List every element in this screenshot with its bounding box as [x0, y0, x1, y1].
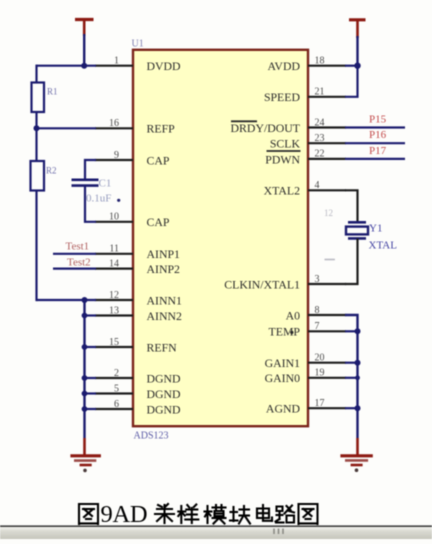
pin 11 (AINP1) — [95, 244, 180, 262]
wire: Test2 stub (pin14) — [53, 268, 96, 270]
svg-text:Test1: Test1 — [66, 240, 90, 252]
svg-text:U1: U1 — [132, 39, 144, 50]
svg-text:A0: A0 — [286, 308, 301, 322]
svg-text:CLKIN/XTAL1: CLKIN/XTAL1 — [224, 277, 300, 291]
svg-text:P17: P17 — [369, 145, 387, 157]
resistor R2 — [31, 161, 57, 191]
wire: pin18 to rail — [345, 65, 358, 67]
faint dash mark — [325, 259, 335, 261]
wire: pin17 to right bus — [345, 407, 358, 409]
wire: pin1 to left rail — [37, 65, 97, 67]
wire: power stem to pin1 net — [83, 34, 85, 66]
wire: pin6 to ground bus — [85, 408, 97, 410]
svg-text:7: 7 — [315, 321, 320, 332]
junction pin6/bus — [82, 406, 88, 412]
svg-text:DVDD: DVDD — [147, 59, 182, 73]
svg-text:P16: P16 — [369, 129, 387, 141]
pin 8 (A0) — [286, 305, 346, 323]
title: 图9AD 采样模块电路图 — [79, 504, 98, 524]
pin 5 (DGND) — [95, 383, 181, 401]
pin 17 (AGND) — [266, 398, 346, 416]
svg-text:PDWN: PDWN — [265, 152, 300, 166]
svg-text:2: 2 — [114, 368, 119, 379]
op-amp/ADC IC U1 body — [133, 50, 308, 426]
wire: left rail above R1 — [35, 65, 37, 84]
junction pin2/bus — [82, 375, 88, 381]
pin 2 (DGND) — [95, 368, 181, 386]
junction AVDD — [354, 62, 360, 68]
svg-text:P15: P15 — [369, 114, 387, 126]
svg-text:21: 21 — [315, 87, 325, 98]
svg-text:19: 19 — [315, 368, 325, 379]
svg-text:11: 11 — [109, 244, 119, 255]
wire: Test1 stub (pin11) — [53, 253, 96, 255]
svg-text:AINN2: AINN2 — [147, 309, 182, 323]
overline DRDY — [231, 120, 257, 122]
wire: P17 net — [345, 158, 405, 160]
junction pin15/bus — [82, 344, 88, 350]
pin 12 (AINN1) — [95, 290, 182, 308]
svg-text:8: 8 — [315, 305, 320, 316]
pin 23 (SCLK) — [270, 133, 346, 151]
svg-text:5: 5 — [114, 383, 119, 394]
svg-text:0.1uF: 0.1uF — [86, 193, 111, 205]
pin 24 (DRDY/DOUT) — [231, 117, 346, 135]
wire: left rail R1 to R2 — [35, 112, 37, 161]
wire: P16 net — [345, 142, 405, 144]
TEMP dot artifact — [290, 331, 293, 334]
junction at REFP/left rail — [34, 125, 40, 131]
svg-text:DGND: DGND — [147, 402, 182, 416]
pin 22 (PDWN) — [265, 149, 346, 167]
scrollbar grip — [274, 529, 283, 535]
wire: pin13 to ground bus — [85, 314, 97, 316]
svg-text:24: 24 — [315, 117, 325, 128]
ground symbol (right, AGND) — [340, 438, 372, 472]
svg-text:DGND: DGND — [147, 387, 182, 401]
capacitor C1 — [72, 178, 121, 205]
pin 6 (DGND) — [95, 399, 181, 417]
svg-text:Test2: Test2 — [67, 256, 91, 268]
svg-text:R1: R1 — [47, 87, 58, 97]
junction pin20 — [355, 360, 361, 366]
wire: crystal bottom to pin3 — [345, 238, 358, 284]
svg-text:REFP: REFP — [147, 122, 176, 136]
pin 20 (GAIN1) — [265, 353, 346, 371]
power VCC symbol (left, DVDD) — [75, 20, 94, 37]
svg-text:4: 4 — [315, 180, 320, 191]
svg-text:C1: C1 — [99, 178, 112, 190]
junction pin19 — [355, 375, 360, 380]
svg-text:SPEED: SPEED — [264, 90, 301, 104]
svg-text:AGND: AGND — [266, 402, 301, 416]
pin 3 (CLKIN/XTAL1) — [224, 274, 346, 292]
pin 10 (CAP) — [95, 212, 170, 230]
scrollbar track — [0, 527, 432, 539]
pin 19 (GAIN0) — [265, 368, 346, 386]
junction pin13/bus — [82, 313, 88, 319]
junction on pin1 wire — [81, 63, 87, 69]
wire: pin15 to ground bus — [85, 346, 97, 348]
svg-text:18: 18 — [315, 56, 325, 67]
wire: pin5 to ground bus — [85, 392, 97, 394]
wire: pin12 to left rail — [37, 299, 97, 301]
pin 9 (CAP) — [95, 150, 170, 168]
svg-text:12: 12 — [109, 290, 119, 301]
svg-text:17: 17 — [315, 398, 325, 409]
svg-text:9: 9 — [114, 150, 119, 161]
svg-text:AINN1: AINN1 — [147, 293, 182, 307]
svg-text:20: 20 — [315, 353, 325, 364]
svg-text:AINP2: AINP2 — [147, 262, 181, 276]
svg-text:AINP1: AINP1 — [147, 247, 181, 261]
svg-text:12: 12 — [324, 208, 333, 218]
wire: AVDD rail down to pin21 — [345, 66, 358, 97]
svg-text:GAIN1: GAIN1 — [265, 356, 300, 370]
svg-text:14: 14 — [109, 258, 119, 269]
wire: pin19 to right bus — [345, 377, 358, 379]
pin 4 (XTAL2) — [264, 180, 346, 198]
wire: pin4 to crystal top — [345, 190, 358, 223]
pin 16 (REFP) — [95, 118, 175, 136]
wire: pin9 loop top — [85, 160, 96, 181]
wire: left rail R2 down to AINN1 net — [35, 191, 37, 302]
overline PDWN — [267, 150, 301, 152]
wire: pin7 to right bus — [345, 330, 358, 332]
resistor R1 — [32, 83, 58, 113]
svg-text:SCLK: SCLK — [270, 137, 301, 151]
wire: power stem to AVDD net — [356, 36, 358, 66]
svg-text:23: 23 — [315, 133, 325, 144]
svg-text:XTAL: XTAL — [369, 240, 398, 252]
svg-text:22: 22 — [315, 149, 325, 160]
wire: pin8 to right ground bus — [345, 315, 358, 438]
svg-text:15: 15 — [109, 337, 119, 348]
svg-text:ADS123: ADS123 — [134, 431, 169, 442]
junction pin17 — [355, 405, 361, 411]
window edge line — [0, 525, 432, 527]
junction AINN bus top — [82, 297, 88, 303]
pin 13 (AINN2) — [95, 305, 182, 323]
power VCC symbol (right, AVDD) — [349, 20, 366, 38]
ground symbol (left, DGND) — [70, 438, 101, 472]
wire: left ground bus vertical — [83, 300, 85, 438]
wire: pin20 to right bus — [345, 362, 358, 364]
svg-text:13: 13 — [109, 305, 119, 316]
pin 1 (DVDD) — [95, 56, 181, 74]
svg-text:DRDY/DOUT: DRDY/DOUT — [231, 121, 301, 135]
pin 7 (TEMP) — [269, 321, 346, 339]
svg-text:3: 3 — [315, 274, 320, 285]
wire: pin2 to ground bus — [85, 377, 97, 379]
pin 21 (SPEED) — [264, 87, 346, 105]
svg-text:XTAL2: XTAL2 — [264, 184, 301, 198]
svg-text:CAP: CAP — [147, 215, 170, 229]
junction pin7 — [355, 328, 361, 334]
pin 15 (REFN) — [95, 337, 177, 355]
junction pin5/bus — [82, 391, 88, 397]
svg-text:CAP: CAP — [147, 153, 170, 167]
svg-text:GAIN0: GAIN0 — [265, 371, 300, 385]
svg-text:1: 1 — [114, 56, 119, 67]
svg-text:REFN: REFN — [147, 340, 178, 354]
svg-text:Y1: Y1 — [369, 223, 382, 235]
wire: P15 net — [345, 126, 405, 128]
wire: pin16 to left rail — [37, 127, 97, 129]
svg-text:9AD: 9AD — [101, 501, 148, 528]
pin 18 (AVDD) — [267, 56, 346, 74]
svg-text:AVDD: AVDD — [267, 59, 300, 73]
wire: pin10 loop bottom — [85, 185, 96, 222]
svg-text:DGND: DGND — [147, 371, 182, 385]
svg-text:16: 16 — [109, 118, 119, 129]
svg-text:6: 6 — [114, 399, 119, 410]
svg-text:R2: R2 — [46, 166, 57, 176]
crystal Y1 — [346, 222, 397, 251]
svg-text:10: 10 — [109, 212, 119, 223]
svg-text:TEMP: TEMP — [269, 325, 301, 339]
pin 14 (AINP2) — [95, 258, 180, 276]
